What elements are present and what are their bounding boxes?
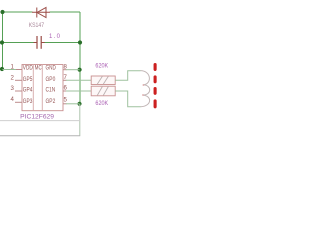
svg-text:GP5: GP5 [23, 76, 33, 83]
electrode cusp marks [142, 84, 144, 96]
svg-text:2: 2 [11, 74, 15, 81]
wire pin6 to R2 [66, 90, 91, 92]
svg-text:GND: GND [46, 65, 57, 72]
electrode sensor coil arcs [141, 71, 150, 107]
node junction top-left [0, 10, 4, 14]
IC pin stubs right [63, 70, 67, 104]
node junction cap-right [78, 40, 82, 44]
resistor R2 slashes [97, 87, 108, 96]
svg-text:GP3: GP3 [23, 98, 33, 105]
svg-text:GP4: GP4 [23, 87, 33, 94]
node junction pin5 [77, 102, 81, 106]
wire pin1 to left rail [3, 69, 17, 71]
wire capacitor rail right [42, 42, 81, 44]
node junction mid-left [0, 40, 4, 44]
IC pin labels [23, 65, 56, 105]
capacitor leads [34, 42, 45, 44]
svg-text:5: 5 [64, 97, 68, 104]
svg-text:C1N: C1N [46, 87, 56, 94]
svg-text:KS147: KS147 [29, 23, 45, 29]
frame gray box bottom edge [0, 135, 80, 137]
wire pin8 to right rail [66, 69, 80, 71]
wire left rail [2, 12, 4, 70]
svg-text:620K: 620K [95, 101, 108, 107]
resistor R1 slashes [97, 76, 108, 84]
wire top rail left [3, 11, 33, 13]
frame gray box top edge [0, 120, 80, 122]
resistor R1 box [91, 76, 115, 85]
svg-text:1: 1 [11, 64, 15, 71]
IC U1 PIC12F629 box [22, 65, 63, 111]
wire R1 to electrode [115, 71, 140, 81]
svg-text:7: 7 [64, 74, 68, 81]
capacitor C plates [37, 36, 41, 49]
IC internal dividers [33, 65, 42, 111]
svg-text:GP2: GP2 [46, 98, 56, 105]
svg-text:PIC12F629: PIC12F629 [20, 113, 54, 120]
wire R2 to electrode [115, 91, 140, 107]
svg-text:VDD: VDD [23, 65, 33, 72]
svg-text:1.0: 1.0 [49, 34, 61, 40]
svg-text:MC: MC [35, 65, 42, 72]
wire pin5 down to frame corner [79, 104, 81, 136]
wire right rail [79, 12, 81, 104]
wire top rail right [50, 11, 81, 13]
IC pin numbers [11, 64, 68, 104]
wire capacitor rail left [3, 42, 37, 44]
svg-text:6: 6 [64, 85, 68, 92]
wire pin5 to right rail [66, 103, 80, 105]
wire pin7 to R1 [66, 79, 91, 81]
IC pin stubs left [15, 70, 22, 103]
finger proximity dashed line [154, 65, 157, 107]
node junction pin8 [78, 68, 82, 72]
svg-text:3: 3 [11, 85, 15, 92]
svg-text:GP0: GP0 [46, 76, 56, 83]
resistor R2 box [91, 86, 115, 96]
svg-text:4: 4 [11, 96, 15, 103]
svg-text:620K: 620K [95, 63, 108, 69]
node junction pin1 [0, 67, 4, 71]
svg-text:8: 8 [64, 64, 68, 71]
diode KS147 symbol [32, 8, 50, 18]
